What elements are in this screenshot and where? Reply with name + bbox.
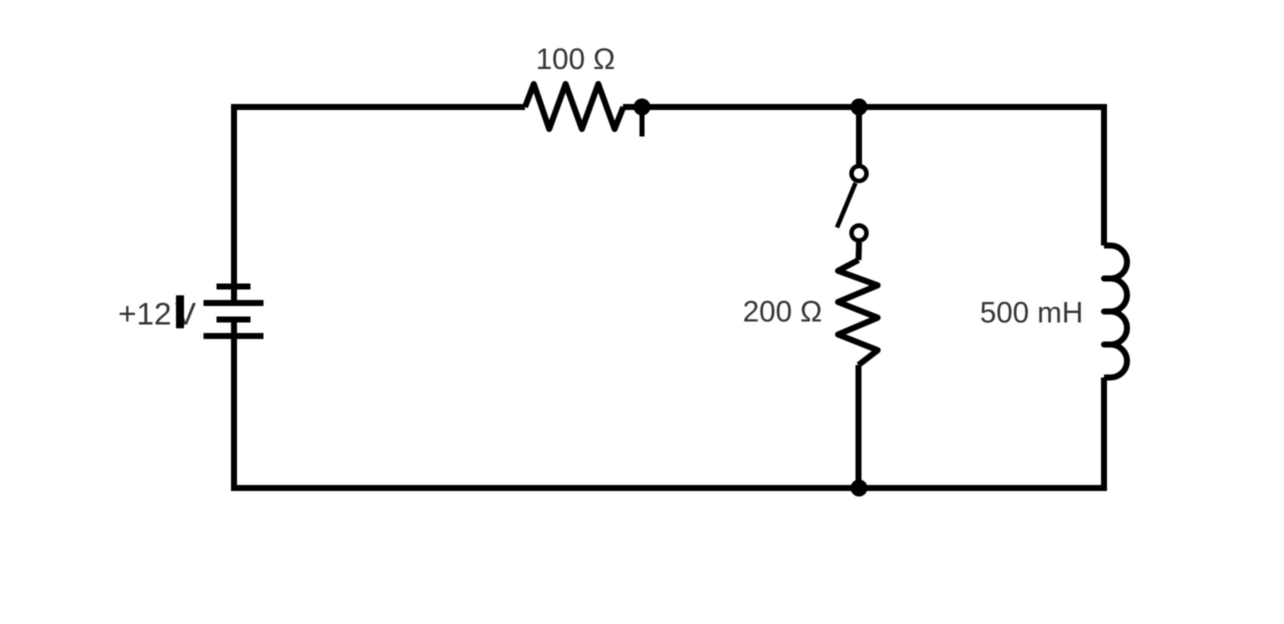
- resistor R1 100 Ohm zigzag: [525, 84, 623, 129]
- switch SW1 bottom contact circle: [852, 226, 867, 241]
- wire left rail upper (battery top lead): [231, 104, 237, 303]
- wire switch bottom lead: [856, 243, 863, 261]
- wire top rail left segment: [234, 104, 525, 110]
- battery V1 plate long bottom: [204, 333, 264, 339]
- switch SW1 top contact circle: [852, 166, 867, 181]
- wire left rail lower (battery bottom lead): [231, 320, 237, 492]
- inductor L1 500 mH coil: [1104, 246, 1127, 378]
- text caret in V1 label: [176, 295, 184, 328]
- junction node A dot (after R1): [634, 99, 651, 116]
- wire right rail lower (inductor bottom lead): [1101, 378, 1107, 492]
- wire top rail right segment: [623, 104, 1104, 110]
- junction node C dot (bottom of R2 branch): [851, 480, 868, 497]
- svg-text:+12: +12: [118, 296, 171, 332]
- battery V1 plate long upper: [204, 300, 264, 306]
- wire R2 bottom lead: [856, 365, 862, 488]
- svg-text:100 Ω: 100 Ω: [536, 43, 615, 76]
- wire bottom rail: [231, 485, 1104, 491]
- wire right rail upper (inductor top lead): [1101, 104, 1107, 246]
- junction node B dot (top of switch branch): [851, 99, 868, 116]
- svg-text:500 mH: 500 mH: [980, 297, 1083, 330]
- battery V1 plate short top: [217, 284, 251, 290]
- switch SW1 blade: [837, 183, 856, 228]
- battery V1 plate short lower: [217, 317, 251, 323]
- node stub below junction A: [640, 107, 645, 137]
- wire switch top lead: [856, 107, 862, 164]
- svg-text:200 Ω: 200 Ω: [743, 296, 822, 329]
- resistor R2 200 Ohm zigzag: [838, 260, 878, 365]
